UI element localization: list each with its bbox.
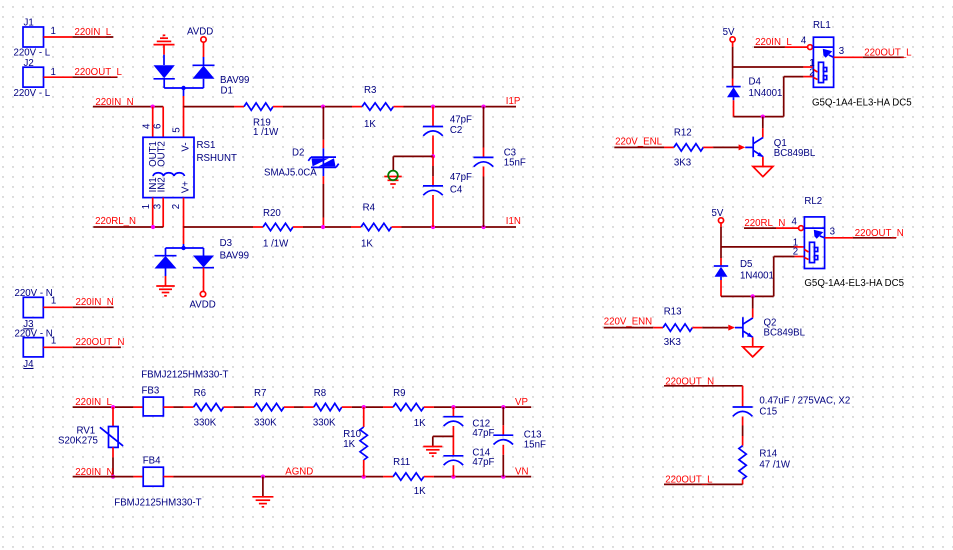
net label 220IN_L xyxy=(75,27,112,38)
wire R3 to I1P xyxy=(404,106,517,108)
wire 220IN_L to RL1 pin 4 xyxy=(754,45,812,50)
relay RL2 part number xyxy=(804,278,904,289)
net label 220OUT_N xyxy=(76,337,125,348)
svg-text:220V - L: 220V - L xyxy=(14,47,51,58)
wire C14 to row4 xyxy=(452,465,454,476)
svg-text:330K: 330K xyxy=(254,418,277,429)
svg-text:BAV99: BAV99 xyxy=(220,75,249,86)
diode D5 1N4001 xyxy=(714,258,774,281)
net label 220OUT_L xyxy=(75,67,123,78)
svg-text:D4: D4 xyxy=(749,76,762,87)
svg-text:220OUT_L: 220OUT_L xyxy=(75,67,123,78)
svg-text:SMAJ5.0CA: SMAJ5.0CA xyxy=(264,168,317,179)
svg-text:J2: J2 xyxy=(24,58,34,69)
wire Q1 collector xyxy=(762,117,764,138)
net label 220IN_L bottom xyxy=(75,397,112,408)
junction C3 top xyxy=(481,105,485,109)
power ground below Q2 xyxy=(743,347,763,357)
svg-text:BC849BL: BC849BL xyxy=(774,148,816,159)
svg-text:D3: D3 xyxy=(220,238,232,249)
svg-text:RSHUNT: RSHUNT xyxy=(197,153,237,164)
input arrow at Q1 base xyxy=(739,144,746,150)
wire C13 to row4 xyxy=(502,445,504,477)
svg-text:220V_ENL: 220V_ENL xyxy=(615,136,662,147)
capacitor C14 xyxy=(443,447,494,468)
svg-text:3: 3 xyxy=(152,204,163,209)
wire C12 to C14 xyxy=(452,426,454,455)
wire Q1 emitter xyxy=(762,157,764,167)
svg-text:1: 1 xyxy=(51,26,56,37)
svg-text:R12: R12 xyxy=(674,127,692,138)
svg-text:1N4001: 1N4001 xyxy=(740,270,774,281)
connector J4 xyxy=(15,328,53,370)
svg-text:R14: R14 xyxy=(759,448,777,459)
svg-text:4: 4 xyxy=(141,123,152,129)
svg-text:1K: 1K xyxy=(364,119,376,130)
pin 3 of RL1 wire xyxy=(834,56,904,58)
svg-text:1K: 1K xyxy=(361,239,373,250)
TVS diode D2 SMAJ5.0CA xyxy=(264,148,339,179)
svg-text:4: 4 xyxy=(792,217,798,228)
svg-text:IN2: IN2 xyxy=(157,177,168,192)
svg-text:D5: D5 xyxy=(740,259,752,270)
resistor R4 xyxy=(351,203,402,250)
junction C14 bottom xyxy=(451,475,455,479)
wire C3 to row2 xyxy=(483,167,485,228)
net label I1P xyxy=(506,96,521,107)
net label 220IN_N top xyxy=(95,97,133,108)
svg-text:C4: C4 xyxy=(450,184,463,195)
svg-text:D1: D1 xyxy=(221,86,233,97)
wire 220IN_N row to FB4 xyxy=(73,476,134,478)
svg-text:3K3: 3K3 xyxy=(674,157,691,168)
net label 220IN_N xyxy=(76,297,114,308)
svg-text:G5Q-1A4-EL3-HA DC5: G5Q-1A4-EL3-HA DC5 xyxy=(812,97,912,108)
wire 220IN_N to RS1 pins 4 6 xyxy=(93,106,163,108)
svg-text:S20K275: S20K275 xyxy=(58,435,98,446)
resistor R12 xyxy=(664,127,713,168)
net label 220V_ENN xyxy=(604,317,652,328)
svg-text:15nF: 15nF xyxy=(524,439,546,450)
wire R8 to R9 xyxy=(352,406,383,408)
relay RL1 xyxy=(801,20,844,87)
pin 3 of RS1 xyxy=(152,198,163,227)
junction at RS1 pin 1 xyxy=(151,225,155,229)
net label 220IN_L at RL1 xyxy=(755,37,792,48)
wire net 220IN_L from J1 xyxy=(72,36,113,38)
wire 220IN_L row to FB3 xyxy=(73,406,134,408)
net label VP xyxy=(515,397,528,408)
capacitor C12 xyxy=(443,407,494,439)
wire RS1 pin2 to R20 xyxy=(184,226,254,228)
capacitor C15 xyxy=(733,386,851,418)
junction D2 top xyxy=(321,105,325,109)
wire R6 to R7 xyxy=(234,406,244,408)
svg-text:220OUT_L: 220OUT_L xyxy=(864,48,912,59)
wire C2 to junction xyxy=(432,136,434,157)
svg-text:6: 6 xyxy=(152,124,163,129)
svg-text:220V - N: 220V - N xyxy=(15,288,53,299)
wire 220RL_N to RL2 pin 4 xyxy=(744,226,803,231)
wire R12 to Q1 base xyxy=(713,146,739,148)
svg-text:V+: V+ xyxy=(180,181,191,193)
svg-text:D2: D2 xyxy=(292,148,304,159)
wire FB4 to R11 (AGND net) xyxy=(173,476,383,478)
net label 220OUT_N bottom xyxy=(665,376,714,387)
resistor R20 xyxy=(253,208,303,250)
diode D1 BAV99 xyxy=(154,55,250,97)
svg-text:47pF: 47pF xyxy=(450,114,472,125)
junction C2 C4 midpoint xyxy=(431,154,435,158)
transistor Q2 BC849BL xyxy=(735,317,806,338)
capacitor C2 xyxy=(423,107,472,137)
pin 1 of J4 xyxy=(43,336,72,348)
svg-text:1: 1 xyxy=(51,296,56,307)
wire 5V to D4 xyxy=(732,47,734,79)
svg-text:330K: 330K xyxy=(313,418,336,429)
wire net 220IN_N from J3 xyxy=(73,306,114,308)
varistor RV1 xyxy=(58,407,123,457)
svg-text:220IN_N: 220IN_N xyxy=(76,297,114,308)
wire R13 to Q2 base xyxy=(702,327,728,329)
svg-text:RS1: RS1 xyxy=(197,140,216,151)
wire net 220OUT_L from J2 xyxy=(72,76,117,78)
junction at RS1 pin 4 xyxy=(151,105,155,109)
net label 220IN_N bottom xyxy=(75,467,113,478)
net label 220OUT_L bottom xyxy=(665,475,713,486)
shunt resistor RS1 RSHUNT xyxy=(143,137,237,197)
svg-text:220OUT_N: 220OUT_N xyxy=(76,337,125,348)
wire net 220OUT_N from J4 xyxy=(73,346,121,348)
power ground below Q1 xyxy=(753,167,773,177)
capacitor C13 xyxy=(493,407,546,450)
ferrite bead FB4 xyxy=(114,455,201,508)
resistor R11 xyxy=(383,457,434,497)
resistor R3 xyxy=(352,85,404,130)
connector J1 xyxy=(14,18,51,59)
svg-text:J1: J1 xyxy=(24,18,34,29)
svg-text:R11: R11 xyxy=(393,457,410,468)
resistor R13 xyxy=(653,306,702,348)
svg-text:BAV99: BAV99 xyxy=(220,251,249,262)
relay RL2 xyxy=(792,196,835,269)
ground below D3 xyxy=(156,276,175,296)
svg-text:0.47uF / 275VAC, X2: 0.47uF / 275VAC, X2 xyxy=(759,395,850,406)
svg-text:C15: C15 xyxy=(759,406,777,417)
power port AVDD top xyxy=(187,27,213,58)
wire elbow to mid ground xyxy=(433,436,454,446)
wire rail up to relay pin2 corner xyxy=(784,77,814,117)
power port AVDD bottom xyxy=(190,268,216,311)
svg-text:BC849BL: BC849BL xyxy=(764,328,806,339)
svg-text:R6: R6 xyxy=(194,388,206,399)
svg-text:AGND: AGND xyxy=(285,467,313,478)
svg-text:AVDD: AVDD xyxy=(190,300,216,311)
svg-text:I1P: I1P xyxy=(506,96,521,107)
wire elbow to green ground xyxy=(393,156,433,170)
capacitor C3 xyxy=(474,107,526,169)
svg-text:1K: 1K xyxy=(414,418,426,429)
pin 1 of RS1 xyxy=(141,198,153,227)
svg-text:1: 1 xyxy=(51,336,56,347)
svg-text:330K: 330K xyxy=(194,418,217,429)
svg-text:G5Q-1A4-EL3-HA DC5: G5Q-1A4-EL3-HA DC5 xyxy=(804,278,904,289)
resistor R6 xyxy=(184,388,234,429)
wire Q2 emitter xyxy=(752,337,754,347)
wire R11 to VN xyxy=(434,476,531,478)
junction RV1 bottom xyxy=(111,475,115,479)
pin 2 of RS1 xyxy=(171,198,184,227)
svg-text:R4: R4 xyxy=(363,203,376,214)
ground AGND drop xyxy=(252,477,273,507)
power port 5V for RL1 xyxy=(723,27,736,47)
svg-text:47 /1W: 47 /1W xyxy=(759,459,791,470)
net label 220RL_N at RL2 xyxy=(744,218,785,229)
wire R9 to VP xyxy=(434,406,531,408)
svg-text:220OUT_N: 220OUT_N xyxy=(855,228,904,239)
ground mid bottom xyxy=(423,447,442,457)
pin 5 of RS1 xyxy=(171,127,182,132)
pin 3 of RL2 wire xyxy=(825,237,896,239)
junction C13 bottom xyxy=(501,475,505,479)
svg-text:OUT2: OUT2 xyxy=(157,141,168,167)
wire 220V_ENL to R12 xyxy=(614,146,664,148)
svg-text:RL1: RL1 xyxy=(813,20,831,31)
svg-text:FBMJ2125HM330-T: FBMJ2125HM330-T xyxy=(141,370,228,381)
junction C13 top xyxy=(501,405,505,409)
junction Q1 collector rail xyxy=(761,115,765,119)
svg-text:R8: R8 xyxy=(314,388,326,399)
diode D4 1N4001 xyxy=(726,76,782,100)
wire R14 to 220OUT_L xyxy=(664,483,743,485)
diode D3 BAV99 xyxy=(155,238,250,276)
wire Q2 collector xyxy=(752,296,754,317)
svg-text:R13: R13 xyxy=(664,306,682,317)
svg-text:R7: R7 xyxy=(254,388,266,399)
wire D2 upper lead xyxy=(322,107,324,149)
svg-text:1 /1W: 1 /1W xyxy=(263,239,289,250)
junction C3 bottom xyxy=(481,225,485,229)
junction D2 bottom xyxy=(321,225,325,229)
junction Q2 collector rail xyxy=(751,294,755,298)
wire D2 lower lead xyxy=(322,176,324,227)
connector J2 xyxy=(14,58,51,99)
wire 220OUT_N to C15 xyxy=(664,385,743,387)
svg-text:R3: R3 xyxy=(364,85,376,96)
svg-text:AVDD: AVDD xyxy=(187,27,213,38)
svg-text:220OUT_L: 220OUT_L xyxy=(665,475,713,486)
junction C4 bottom xyxy=(431,225,435,229)
svg-text:220V - L: 220V - L xyxy=(14,88,51,99)
wire RS1 pin5 to R19 xyxy=(184,106,235,108)
svg-text:FB3: FB3 xyxy=(142,385,160,396)
wire 220RL_N to RS1 pins 1 3 xyxy=(93,226,163,228)
svg-text:3K3: 3K3 xyxy=(664,337,681,348)
svg-text:1N4001: 1N4001 xyxy=(749,88,783,99)
relay RL1 part number xyxy=(812,97,912,108)
svg-text:C2: C2 xyxy=(450,125,462,136)
svg-text:FBMJ2125HM330-T: FBMJ2125HM330-T xyxy=(114,498,201,509)
resistor R7 xyxy=(244,388,294,429)
wire 5V to D5 xyxy=(720,227,722,258)
junction AGND ground xyxy=(261,475,265,479)
svg-text:1 /1W: 1 /1W xyxy=(253,127,279,138)
wire R19 to R3 xyxy=(283,106,352,108)
wire D5 to collector rail xyxy=(721,280,774,296)
pin 1 of J1 xyxy=(44,26,73,37)
wire C15 to R14 xyxy=(742,417,744,437)
wire 220V_ENN to R13 xyxy=(604,327,654,329)
svg-text:220RL_N: 220RL_N xyxy=(95,216,136,227)
svg-text:1K: 1K xyxy=(343,439,355,450)
junction R10 top xyxy=(362,405,366,409)
transistor Q1 BC849BL xyxy=(745,137,816,160)
svg-text:5: 5 xyxy=(171,127,182,132)
wire R20 to R4 xyxy=(303,226,351,228)
wire C4 to row2 xyxy=(432,195,434,227)
svg-text:V-: V- xyxy=(180,142,191,151)
svg-text:220IN_L: 220IN_L xyxy=(755,37,792,48)
svg-text:2: 2 xyxy=(793,247,798,258)
svg-text:47pF: 47pF xyxy=(450,172,472,183)
svg-text:220V_ENN: 220V_ENN xyxy=(604,317,652,328)
pin 1 of J2 xyxy=(44,67,73,78)
net label 220OUT_N at RL2 xyxy=(855,228,904,239)
svg-text:VN: VN xyxy=(515,466,528,477)
svg-text:220IN_L: 220IN_L xyxy=(75,27,112,38)
svg-text:15nF: 15nF xyxy=(504,157,526,168)
svg-text:47pF: 47pF xyxy=(472,428,494,439)
resistor R8 xyxy=(304,388,352,428)
junction R10 bottom xyxy=(362,475,366,479)
junction C2 top xyxy=(431,105,435,109)
svg-text:1K: 1K xyxy=(414,486,426,497)
svg-text:220V - N: 220V - N xyxy=(15,328,53,339)
pin 1 of J3 xyxy=(43,296,72,308)
earth ground mid xyxy=(384,171,402,188)
svg-text:VP: VP xyxy=(515,397,528,408)
svg-text:1: 1 xyxy=(51,67,56,78)
wire D1 to RS1 pin 5 xyxy=(183,88,185,137)
wire rail up to RL2 pin2 corner xyxy=(774,257,805,297)
wire R7 to R8 xyxy=(294,406,304,408)
svg-text:3: 3 xyxy=(830,226,835,237)
net label 220OUT_L at RL1 xyxy=(864,48,912,59)
wire RS1 pin 2 down to D3 xyxy=(183,227,185,248)
capacitor C4 xyxy=(423,156,472,195)
resistor R9 xyxy=(383,388,434,429)
ground above D1 xyxy=(154,35,175,54)
pin 6 of RS1 xyxy=(152,107,163,138)
wire RV1 to row4 xyxy=(112,457,114,476)
wire R4 to I1N xyxy=(402,226,517,228)
svg-text:R20: R20 xyxy=(263,208,281,219)
net label 220RL_N xyxy=(95,216,136,227)
svg-text:4: 4 xyxy=(801,36,807,47)
net label 220V_ENL xyxy=(615,136,662,147)
wire pin1 row RL1 xyxy=(733,66,814,68)
net label I1N xyxy=(506,216,521,227)
svg-text:2: 2 xyxy=(171,204,182,209)
svg-text:FB4: FB4 xyxy=(143,455,161,466)
svg-text:3: 3 xyxy=(839,46,844,57)
pin 4 of RS1 xyxy=(141,107,152,138)
svg-text:RL2: RL2 xyxy=(804,196,822,207)
net label VN xyxy=(515,466,528,477)
resistor R10 xyxy=(343,407,367,477)
input arrow at Q2 base xyxy=(728,325,735,331)
svg-text:1: 1 xyxy=(141,204,152,209)
junction C12 top xyxy=(451,405,455,409)
connector J3 xyxy=(15,288,53,330)
svg-text:2: 2 xyxy=(809,67,814,78)
wire FB3 to R6 xyxy=(173,406,183,408)
net label AGND xyxy=(285,467,313,478)
power port 5V for RL2 xyxy=(712,208,724,227)
svg-text:47pF: 47pF xyxy=(472,457,494,468)
wire pin1 row RL2 xyxy=(721,246,804,248)
svg-text:R9: R9 xyxy=(393,388,405,399)
resistor R14 xyxy=(739,436,791,484)
resistor R19 xyxy=(234,103,283,138)
wire D4 to collector rail xyxy=(734,100,784,116)
junction RV1 top xyxy=(111,405,115,409)
svg-text:I1N: I1N xyxy=(506,216,521,227)
ferrite bead FB3 xyxy=(133,370,228,416)
